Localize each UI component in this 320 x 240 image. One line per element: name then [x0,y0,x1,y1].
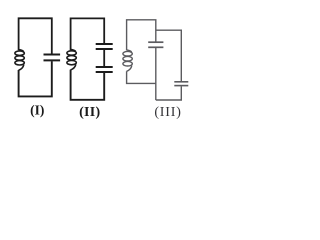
circuit III: left loop top wire [127,20,156,51]
circuit III: right branch top wire [156,30,182,81]
circuit I: bottom wire [19,61,52,96]
svg-text:(I): (I) [30,102,44,117]
capacitor C2b (circuit II, lower) [96,67,113,72]
svg-text:(II): (II) [79,105,100,120]
inductor L1 (circuit I, left edge) [15,50,24,71]
circuit III: middle wire below capacitor [155,48,157,100]
svg-text:(III): (III) [154,105,181,120]
capacitor C3a (circuit III, middle branch) [148,42,163,47]
circuit II: bottom wire [71,70,105,100]
circuit I: top wire [19,18,52,54]
circuit II: middle wire between capacitors [103,50,105,67]
circuit II: top wire [71,18,105,50]
capacitor C3b (circuit III, right branch) [174,82,188,86]
inductor L3 (circuit III, left edge) [123,50,132,71]
circuit III: left loop bottom wire [127,71,156,83]
capacitor C2a (circuit II, upper) [96,44,113,49]
inductor L2 (circuit II, left edge) [67,49,76,70]
capacitor C1 (circuit I, right edge) [44,55,61,61]
circuit III: right branch bottom wire [156,86,182,100]
